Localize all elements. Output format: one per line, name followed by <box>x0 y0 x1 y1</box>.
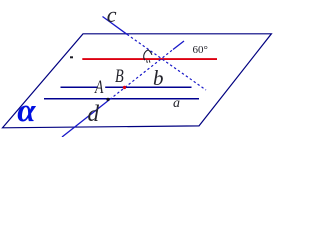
line d solid lower part <box>62 99 110 137</box>
line a <box>44 98 199 100</box>
line c solid part <box>103 17 128 35</box>
label d <box>88 102 100 125</box>
point B red dot <box>123 86 126 89</box>
label A <box>95 78 103 97</box>
tick at left of red line <box>70 56 73 58</box>
line d dashed part <box>110 50 173 100</box>
label c <box>107 4 117 26</box>
plane α parallelogram border <box>3 34 272 128</box>
line d solid upper tip <box>173 41 184 50</box>
red line <box>82 58 217 60</box>
point A dot <box>106 98 109 101</box>
label b <box>153 68 164 89</box>
line c dashed part <box>127 34 206 90</box>
label a <box>173 97 180 111</box>
label α <box>17 95 35 128</box>
label 60° <box>193 45 208 56</box>
angle arc above red line at crossing <box>144 50 152 60</box>
label B <box>115 67 124 86</box>
line b <box>61 86 192 88</box>
white gap in line b where label A crosses <box>98 86 105 89</box>
angle arc below red line at crossing <box>147 60 150 63</box>
